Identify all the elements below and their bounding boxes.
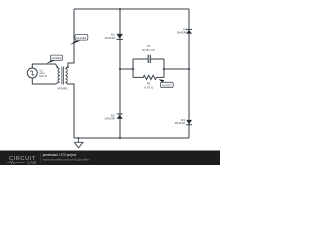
svg-text:www.circuitlab.com/cvb7pq2uw8e: www.circuitlab.com/cvb7pq2uw8en <box>43 158 90 162</box>
svg-text:1N4148: 1N4148 <box>104 116 115 120</box>
svg-text:XFMR1: XFMR1 <box>57 86 67 90</box>
svg-text:NODE3: NODE3 <box>162 83 172 87</box>
svg-text:1N4148: 1N4148 <box>104 36 115 40</box>
svg-text:NODE2: NODE2 <box>76 36 86 40</box>
svg-text:9.79 Ω: 9.79 Ω <box>144 85 154 89</box>
svg-text:1N4148: 1N4148 <box>176 30 187 34</box>
svg-text:1N4148: 1N4148 <box>174 121 185 125</box>
svg-text:60 Hz: 60 Hz <box>39 74 47 78</box>
svg-text:97.87 mF: 97.87 mF <box>142 48 155 52</box>
svg-text:jamielalani / 473 project: jamielalani / 473 project <box>42 153 77 157</box>
svg-text:LAB: LAB <box>28 160 37 165</box>
svg-text:NODE1: NODE1 <box>52 56 62 60</box>
